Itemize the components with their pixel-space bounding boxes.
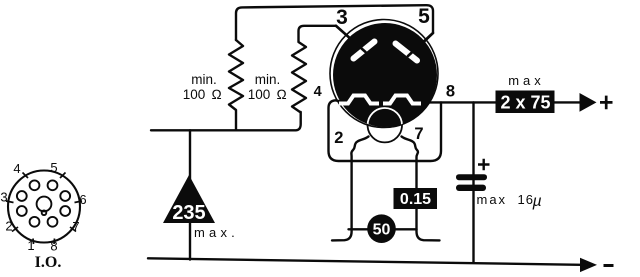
svg-text:2 x 75: 2 x 75 (500, 93, 550, 113)
svg-text:8: 8 (446, 83, 455, 101)
svg-text:min.: min. (191, 72, 217, 87)
svg-text:8: 8 (50, 239, 57, 254)
svg-text:2: 2 (334, 129, 343, 147)
svg-text:3: 3 (0, 190, 7, 205)
svg-text:7: 7 (414, 125, 423, 143)
svg-text:5: 5 (418, 5, 430, 28)
svg-text:min.: min. (255, 72, 281, 87)
svg-text:max: max (508, 73, 545, 88)
svg-text:4: 4 (314, 84, 322, 100)
svg-text:100: 100 (248, 87, 271, 102)
svg-text:0.15: 0.15 (400, 191, 431, 208)
svg-text:5: 5 (50, 160, 57, 175)
svg-text:max.: max. (194, 225, 239, 240)
svg-text:Ω: Ω (277, 87, 287, 102)
svg-text:Ω: Ω (212, 87, 222, 102)
svg-text:6: 6 (79, 192, 86, 207)
svg-text:2: 2 (5, 219, 12, 234)
svg-text:235: 235 (172, 202, 205, 224)
svg-text:I.O.: I.O. (35, 254, 62, 271)
svg-text:4: 4 (13, 161, 20, 176)
svg-text:16: 16 (518, 192, 534, 207)
svg-text:7: 7 (72, 219, 79, 234)
svg-text:max: max (477, 192, 508, 207)
svg-text:1: 1 (27, 238, 34, 253)
svg-text:50: 50 (373, 222, 391, 239)
svg-text:3: 3 (336, 6, 348, 29)
svg-text:100: 100 (183, 87, 206, 102)
svg-text:µ: µ (532, 193, 542, 210)
